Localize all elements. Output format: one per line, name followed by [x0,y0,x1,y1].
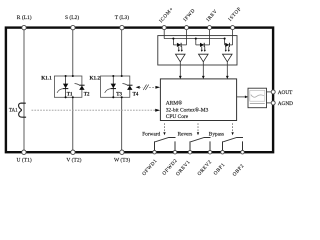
LED D1 [177,43,181,47]
terminal V (T2) [71,150,75,154]
opto channel 2 (IREV) [195,38,210,79]
terminal OFWD1 [153,150,157,154]
svg-text:CPU Core: CPU Core [166,114,189,120]
relay contact Bypass [223,138,244,151]
thyristor T1 [63,84,68,89]
svg-text:T (L3): T (L3) [115,14,130,21]
waveform icon [251,95,264,98]
wire phase S lower [72,97,74,152]
gate of T1 [57,89,63,93]
svg-text:V (T2): V (T2) [66,156,81,163]
wire phase R (L1 to U) [23,28,25,153]
wire to AGND [267,102,272,104]
terminal ICOM+ [162,26,166,30]
arrow to CPU channel 3 [226,65,228,77]
break symbol // [143,85,146,90]
svg-text:K1.1: K1.1 [41,76,52,82]
wire to AOUT [267,91,272,93]
current transformer TA1 [9,103,26,117]
branch wire T1 [65,76,67,97]
svg-text:U (T1): U (T1) [17,156,32,163]
wire common bus ICOM+ [164,38,224,40]
dashed arrow CPU to Revers contact [197,123,199,132]
svg-text:R (L1): R (L1) [17,14,32,21]
terminal S (L2) [71,25,75,29]
enclosure border [6,28,273,153]
svg-text:AOUT: AOUT [278,90,293,96]
wire phase S upper [72,28,74,76]
branch wire T3 [112,76,114,97]
relay contact Revers [190,138,211,151]
gate of T2 [75,84,80,85]
thyristor T2 (on right edge) [79,84,84,86]
gate of T4 [122,84,127,85]
terminal R (L1) [22,25,26,29]
receiver buffer 2 [199,54,209,62]
light arrows [178,47,180,51]
svg-text:T3: T3 [116,92,122,97]
arrow to CPU channel 2 [202,65,204,77]
optocoupler input box [158,36,237,65]
svg-text:Revers: Revers [178,132,193,138]
dashed arrow CPU to Bypass contact [232,123,234,132]
terminal W (T3) [120,150,124,154]
svg-text:ARM®: ARM® [166,100,183,107]
gate of T3 [105,89,111,93]
thyristor T4 (on right edge) [127,84,132,86]
svg-text:K1.2: K1.2 [90,76,101,82]
opto channel 1 (IFWD) [172,38,186,79]
svg-text:Forward: Forward [142,132,160,138]
terminal ISTOP [231,26,235,30]
arrow to CPU channel 1 [179,65,181,77]
CPU block ARM Cortex-M3 [160,79,236,121]
arrow CPU to DAC [237,96,246,98]
junction dots K1.1 [65,75,67,77]
terminal IFWD [185,26,189,30]
LED D3 [225,43,229,47]
svg-text:T4: T4 [133,92,139,97]
light arrows [225,47,227,51]
wire phase T upper [121,28,123,76]
terminal AGND [271,101,275,105]
dashed current-signal line TA1 to CPU [32,109,156,111]
svg-text:AGND: AGND [278,101,293,107]
svg-text:W (T3): W (T3) [114,156,130,163]
relay contact Forward [155,138,176,151]
receiver buffer 1 [176,54,186,62]
thyristor T3 [111,84,116,89]
svg-text:Bypass: Bypass [209,132,224,138]
junction dots K1.2 [112,75,114,77]
thyristor module K1.2 [90,75,139,98]
svg-text:32-bit Cortex®-M3: 32-bit Cortex®-M3 [166,106,209,113]
terminal T (L3) [120,25,124,29]
terminal IREV [208,26,212,30]
svg-text:TA1: TA1 [9,108,18,113]
wire stub IFWD [186,28,188,45]
terminal OREV1 [188,150,192,154]
arrowhead into CPU (current signal) [155,109,160,112]
svg-text:T2: T2 [84,92,90,97]
terminal OBP1 [221,150,225,154]
dashed arrow CPU to Forward contact [164,123,166,132]
terminal OBP2 [241,150,245,154]
DAC analog output block [248,88,267,108]
terminal U (T1) [22,150,26,154]
LED D2 [200,43,204,47]
wire phase T lower [121,97,123,152]
wire stub ICOM+ [163,28,165,39]
terminal AOUT [271,90,275,94]
opto channel 3 (ISTOP) [223,38,233,79]
wire stub ISTOP [232,28,234,45]
receiver buffer 3 [223,54,233,62]
terminal OFWD2 [173,150,177,154]
wire stub IREV [209,28,211,45]
dashed gate-control link modules to CPU [136,85,161,90]
terminal OREV2 [208,150,212,154]
svg-text:T1: T1 [67,92,73,97]
thyristor module K1.1 [41,75,90,98]
svg-text:S (L2): S (L2) [65,14,79,21]
light arrows [201,47,203,51]
